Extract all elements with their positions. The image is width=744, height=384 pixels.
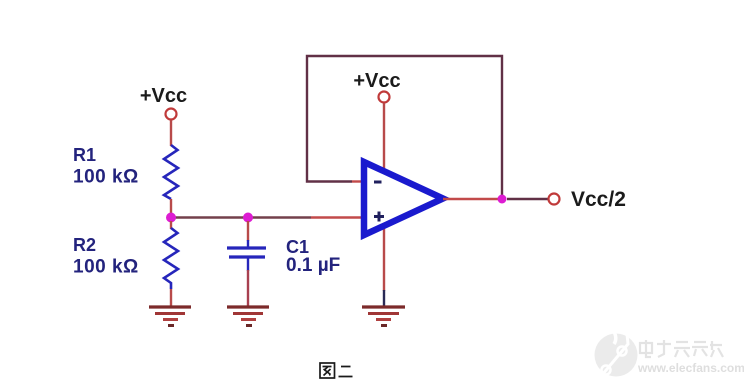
wire: node A to node B (dark segment) [171,216,248,218]
wire: C1 bottom lead (blue) [247,258,249,271]
wire: node A to R2 [170,221,172,229]
svg-text:R2: R2 [73,235,96,255]
terminal +Vcc (left supply) [166,109,177,120]
wire: node C to output terminal (dark) [507,198,549,200]
noninverting input marker (+) [374,212,384,222]
svg-text:Vcc/2: Vcc/2 [571,188,626,211]
wire: node B to C1 (red) [247,221,249,241]
node A junction dot [166,213,176,223]
svg-text:www.elecfans.com: www.elecfans.com [637,361,744,375]
wire: +Vcc terminal to op-amp V+ pin [383,103,385,170]
svg-text:0.1 µF: 0.1 µF [286,255,340,276]
wire: op-amp ground lead (dark) [383,290,385,306]
terminal Vcc/2 output [549,194,560,205]
svg-text:+Vcc: +Vcc [353,70,400,92]
capacitor C1 [227,248,266,257]
ground (below op-amp) [362,307,405,326]
wire: R1 to node A [170,199,172,217]
resistor R1 [164,145,178,199]
wire: R2 to ground [170,289,172,306]
wire: C1 to ground (red) [247,270,249,306]
wire: +Vcc terminal to R1 [170,120,172,146]
ground (below C1) [227,307,269,326]
watermark: elecfans logo circle [595,330,638,381]
svg-text:100 kΩ: 100 kΩ [73,167,139,188]
inverting input marker (-) [374,181,382,184]
watermark: 电子发烧友 text (approximated strokes) [640,340,723,357]
wire: op-amp V- pin to ground (red) [383,228,385,291]
node C junction dot (output) [498,195,507,204]
node B junction dot (capacitor tap) [243,213,253,223]
ground (below R2) [149,307,191,326]
wire: op-amp output to node C [443,198,502,200]
wire: node B toward op-amp (dark segment) [248,216,311,218]
wire: to op-amp noninverting input (red segment) [311,216,364,218]
svg-text:100 kΩ: 100 kΩ [73,257,139,278]
svg-text:R1: R1 [73,145,96,165]
feedback wire: output node up and over to inverting input [307,56,502,196]
resistor R2 [164,228,178,289]
op-amp U1 [364,162,443,235]
terminal +Vcc (op-amp supply) [379,92,390,103]
wire: C1 top lead (blue) [247,240,249,247]
svg-text:+Vcc: +Vcc [140,85,187,107]
svg-text:C1: C1 [286,237,309,257]
wire: feedback to inverting input (red segment) [352,180,364,182]
caption 图二 (Figure 2, drawn glyphs) [320,363,353,378]
